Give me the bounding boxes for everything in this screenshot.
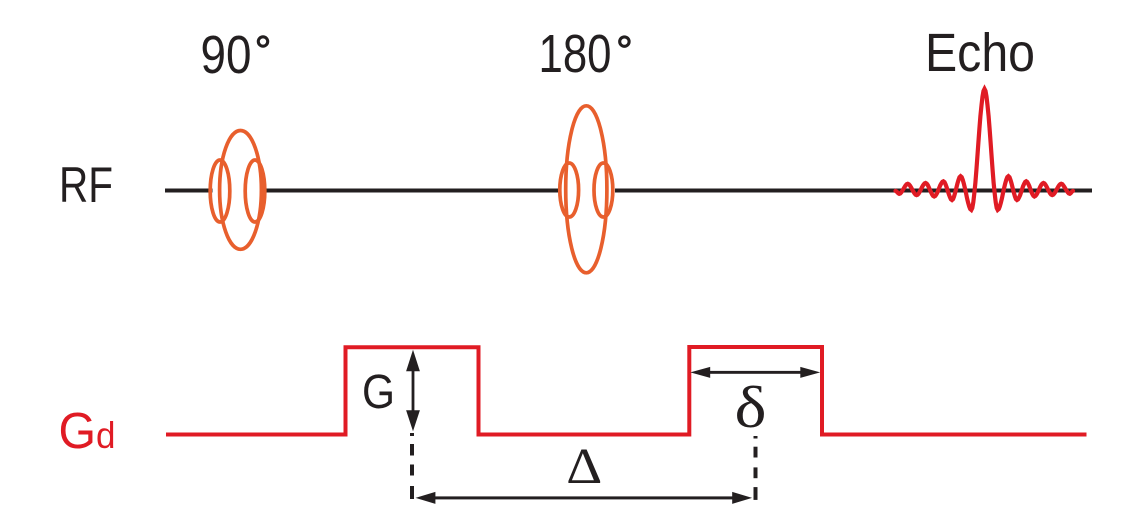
arrow delta horizontal double-headed bbox=[690, 367, 820, 378]
180-degree RF pulse ellipses bbox=[560, 106, 613, 273]
label 180-degree pulse bbox=[539, 24, 630, 84]
svg-text:Δ: Δ bbox=[566, 438, 602, 494]
wire RF baseline segment 3 bbox=[615, 189, 1092, 193]
arrow Delta horizontal double-headed bbox=[416, 492, 753, 504]
echo signal waveform bbox=[896, 89, 1074, 210]
dashed line below second gradient pulse bbox=[754, 436, 758, 500]
dashed line below first gradient pulse bbox=[410, 433, 414, 499]
arrow G vertical double-headed bbox=[406, 350, 420, 432]
90-degree RF pulse ellipses bbox=[210, 131, 265, 250]
svg-text:180: 180 bbox=[539, 24, 612, 84]
label 90-degree pulse bbox=[201, 25, 268, 85]
svg-text:Echo: Echo bbox=[925, 23, 1035, 83]
svg-text:RF: RF bbox=[59, 157, 113, 213]
gradient waveform Gd trace bbox=[166, 347, 1087, 435]
svg-text:G: G bbox=[362, 366, 395, 419]
wire RF baseline segment 2 bbox=[265, 189, 558, 193]
svg-text:Gd: Gd bbox=[59, 402, 116, 459]
wire RF baseline segment 1 bbox=[165, 189, 213, 193]
svg-text:δ: δ bbox=[735, 374, 767, 440]
svg-text:90: 90 bbox=[201, 25, 252, 85]
